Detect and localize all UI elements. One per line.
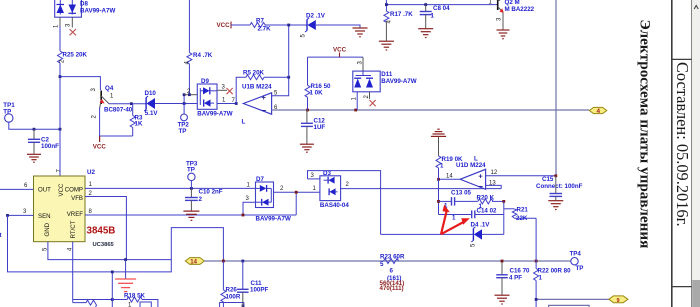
resistor R7 2.7K [250,23,265,28]
svg-text:VCC: VCC [93,144,107,151]
U1D pin13 riser [486,185,502,188]
D7 pin2 wire to D3 pin1 [274,191,320,193]
svg-text:−: − [262,106,267,115]
SEN loop wires [8,215,224,272]
svg-text:9: 9 [617,298,620,304]
sheet border vertical line [671,0,673,307]
TITLEBLOCK [637,0,700,307]
svg-text:Connect: 100nF: Connect: 100nF [536,183,583,190]
wire R3 bottom to VCC corner [100,135,133,137]
svg-text:BAV99-A7W: BAV99-A7W [80,7,115,14]
svg-text:100nF: 100nF [41,143,59,150]
svg-text:R5 20K: R5 20K [243,70,265,77]
svg-text:R7: R7 [256,18,264,25]
off-page flag 9 [609,296,628,304]
svg-text:U1B M224: U1B M224 [242,84,272,91]
test point TP1 [3,102,15,122]
svg-text:VCC: VCC [217,22,231,29]
power VCC (Q4 emitter) [93,136,107,151]
annotation arrow to C13 [441,205,450,235]
node dot R18 left [111,298,114,301]
capacitor C13 [439,190,472,210]
long vertical net line [555,0,557,176]
node dot [59,75,62,78]
svg-text:Составлен: 05.09.2016г.: Составлен: 05.09.2016г. [673,62,692,227]
power VCC (R7 rail) [217,22,251,30]
svg-text:1 0K: 1 0K [310,89,324,96]
D4 row wire [381,233,474,235]
scrollbar [692,0,700,307]
svg-text:VFB: VFB [71,195,83,202]
inverted ground above R19 [431,129,446,156]
ground (earth) below C12 [300,144,314,152]
svg-text:C10 2nF: C10 2nF [199,188,223,195]
svg-text:5.1V: 5.1V [145,110,159,117]
U2 OUT wire to left edge [0,188,34,190]
capacitor C2 100nF [28,129,59,154]
svg-text:D9: D9 [201,78,209,85]
svg-text:14: 14 [446,174,453,180]
svg-text:VCC: VCC [58,183,65,196]
svg-text:BAV99-A7W: BAV99-A7W [381,78,416,85]
svg-text:R21: R21 [517,206,529,213]
svg-text:TP: TP [576,265,584,272]
resistor R16 [305,57,331,110]
svg-text:1UF: 1UF [314,124,326,131]
zener D2 .1V [301,13,326,38]
svg-text:2.7K: 2.7K [258,26,272,33]
svg-text:2: 2 [199,196,203,203]
capacitor C16 [496,261,530,295]
wire pin4 branch to R18 row [73,299,113,301]
ground (earth) below C2 [27,154,41,162]
D11 pin 2 stub with X [369,92,371,99]
resistor R23 60R [380,253,405,292]
svg-text:SEN: SEN [38,213,51,220]
svg-text:6: 6 [390,268,394,275]
node dot loop/R18 riser [111,271,114,274]
D7 pin3 stub loop to VREF [243,202,256,215]
svg-text:VREF: VREF [67,211,84,218]
dual diode D7 BAV99-A7W [246,176,291,223]
svg-text:R19 0K: R19 0K [442,156,464,163]
resistor R17 .7K [384,11,413,41]
node dot [222,260,225,263]
dual diode D11 BAV99-A7W [353,57,417,92]
wire Q4 collector [109,103,147,105]
dual diode D3 BAS40-04 [320,170,349,209]
svg-text:R25 20K: R25 20K [63,52,88,59]
resistor R4 [185,0,213,95]
D3 pin3 loop over to D4 row [308,171,381,235]
no-connect X on D8 pin 3 [70,29,77,35]
ground (earth) below C8 [418,29,433,38]
test point TP4 [570,250,584,272]
node dot TP2 tap [183,102,186,105]
op-amp U1D M224 [456,155,486,191]
bright ground below VFB junction [115,260,136,292]
svg-text:22K: 22K [516,215,528,222]
U2 SEN wire [8,214,34,216]
svg-text:R20 K: R20 K [477,194,495,201]
svg-text:R17 .7K: R17 .7K [390,11,413,18]
ground (earth) below Q2 [497,30,510,39]
wire junction to Q4 base [60,77,100,90]
svg-text:R26: R26 [226,287,238,294]
svg-text:VCC: VCC [333,47,347,54]
connector box at bottom edge left [140,302,151,307]
current sense bus (flag14 to TP4) [204,260,570,262]
wire pin7 lead [59,129,61,176]
feedback wire up from output [236,77,246,103]
resistor R25 20K [58,51,63,63]
wire TP2 riser [183,95,185,114]
wire feedback riser to VCC/R7 rail [288,25,290,77]
svg-text:TP: TP [179,128,187,135]
resistor R3 1K [130,104,143,136]
svg-text:470(111): 470(111) [380,285,404,292]
transistor Q2 BA2222 [489,0,535,30]
svg-text:12: 12 [491,170,498,176]
ground (earth) right of D2 [353,28,368,37]
title cell divider bottom [672,286,692,288]
resistor R5 20K [246,75,264,80]
svg-text:D11: D11 [381,71,393,78]
svg-text:Q4: Q4 [105,85,114,92]
zener D10 5.1V [144,90,158,117]
svg-text:100R: 100R [226,294,241,301]
svg-text:L: L [242,119,246,126]
IC U2 UC3845 [34,169,96,242]
svg-text:1: 1 [440,163,444,170]
resistor R20 [455,194,504,210]
svg-text:GND: GND [44,222,51,236]
wire Q4 emitter to VCC [99,108,101,137]
resistor R26 100R [221,261,241,307]
svg-text:TP4: TP4 [570,250,582,257]
connector box at bottom edge under R26/C11 [220,303,244,307]
wire TP1 to pin7 net [9,122,60,129]
U2 COMP wire to D7 [85,187,256,189]
svg-text:100PF: 100PF [250,287,268,294]
U1D pin12 wire to C15 node [486,175,556,177]
svg-text:R23 60R: R23 60R [380,253,405,260]
svg-text:+: + [262,93,267,102]
U2 VFB wire [85,197,126,260]
svg-text:M BA2222: M BA2222 [505,6,535,13]
capacitor C15 100nF [536,176,583,201]
U2 GND pin5 wire [48,242,171,260]
R21 riser to sense bus [535,218,537,261]
svg-text:13: 13 [489,181,496,187]
U1D pin14 wire [439,178,461,180]
ground (earth) below C15 [548,201,563,210]
annotation arrow to C14 [441,218,470,234]
svg-text:5: 5 [380,261,384,268]
wire D10 to main node [155,103,236,105]
transistor Q4 BC807-40 [91,85,133,119]
node dot VFB/GND junction [124,258,127,261]
dual diode D9 BAV99-A7W [197,78,232,117]
test point TP3 [186,160,198,188]
off-page flag 4 [589,107,607,115]
D3 pin3 stub [308,178,320,180]
svg-text:C14 02: C14 02 [477,207,498,214]
svg-text:C8 04: C8 04 [433,5,450,12]
svg-text:BAS40-04: BAS40-04 [320,202,349,209]
svg-text:1: 1 [452,215,456,222]
capacitor C11 100PF [237,261,268,307]
D3 pin2 wire to U1D pin13 [341,188,502,190]
capacitor C14 [439,207,504,221]
op-amp U1B M224 [242,84,273,126]
svg-text:+: + [478,171,483,180]
off-page flag 14 [185,258,204,266]
title cell divider top [672,58,692,60]
svg-text:R4 .7K: R4 .7K [193,52,213,59]
wire R25 to junction [59,63,61,129]
D9 pin 3 stub with X [217,89,227,91]
wire D9 pin2 stub [184,94,197,96]
node dot [130,102,133,105]
svg-text:C13 05: C13 05 [451,190,472,197]
test point TP2 [178,114,190,135]
ground (earth) below C10 [183,211,199,220]
svg-text:−: − [478,182,483,191]
svg-text:14: 14 [190,259,197,265]
svg-text:3845B: 3845B [87,226,116,237]
node dot [33,128,36,131]
svg-text:1: 1 [431,13,435,20]
svg-text:4: 4 [597,108,601,115]
dual diode D8 BAV99-A7W [55,0,116,17]
svg-text:D10: D10 [145,90,157,97]
right node riser [503,201,505,234]
svg-text:1K: 1K [135,121,143,128]
wire D8 pin1 to R25 [59,26,61,51]
zener D4 .1V [471,222,491,248]
svg-text:t: t [0,232,2,239]
riser above R18 [111,272,113,307]
capacitor C10 2nF [185,188,223,210]
svg-text:UC3865: UC3865 [93,242,115,248]
capacitor C12 1UF [301,110,326,144]
svg-text:RT/CT: RT/CT [70,220,77,238]
ground (earth) below R17 [379,41,394,50]
D11 pin 1 lead to bus [356,92,358,110]
svg-text:OUT: OUT [38,187,51,194]
top rail R17/C8/Q2 [385,0,387,11]
resistor R18 5K [112,292,158,307]
node dot [306,109,309,112]
resistor R21 22K [504,206,536,222]
VCC rail to D11 [308,56,364,58]
svg-text:4 PF: 4 PF [509,274,522,281]
svg-text:BAV99-A7W: BAV99-A7W [256,216,291,223]
VREF riser to pin2 net [295,192,297,215]
svg-text:TP: TP [187,166,195,173]
resistor R19 0K [436,156,463,179]
U2 VREF wire [85,214,296,216]
wire R7 to D2 [265,24,307,26]
wire D2 to ground [316,25,360,28]
svg-text:U2: U2 [87,169,95,176]
resistor on pin4 bottom wire [73,300,97,307]
C13 node riser [438,179,440,214]
svg-text:COMP: COMP [65,187,83,194]
svg-text:D4 .1V: D4 .1V [471,222,491,229]
bottom-right connector box [549,305,590,307]
main bus wire (U1B pin6 to flag 4) [272,109,589,111]
resistor R22 below bus [534,261,571,307]
wire to flag 9 [536,298,609,300]
svg-text:R22 00R 80: R22 00R 80 [538,268,572,275]
ground (earth) below C16 [495,295,510,304]
svg-text:1: 1 [539,275,543,282]
node dot TP3 tap [190,187,193,190]
capacitor C8 [420,5,450,29]
wire R5 to pin5 riser [264,77,288,96]
node dot op-amp output [235,102,238,105]
C15 node dot [554,174,557,177]
svg-text:BC807-40: BC807-40 [104,107,133,114]
U2 RT/CT pin4 wire [72,242,74,303]
svg-text:Электросхема платы управления: Электросхема платы управления [637,20,654,249]
svg-text:BAV99-A7W: BAV99-A7W [197,110,232,117]
power VCC (D11 rail) [333,47,347,58]
D8 pin 3 stub [71,17,73,27]
